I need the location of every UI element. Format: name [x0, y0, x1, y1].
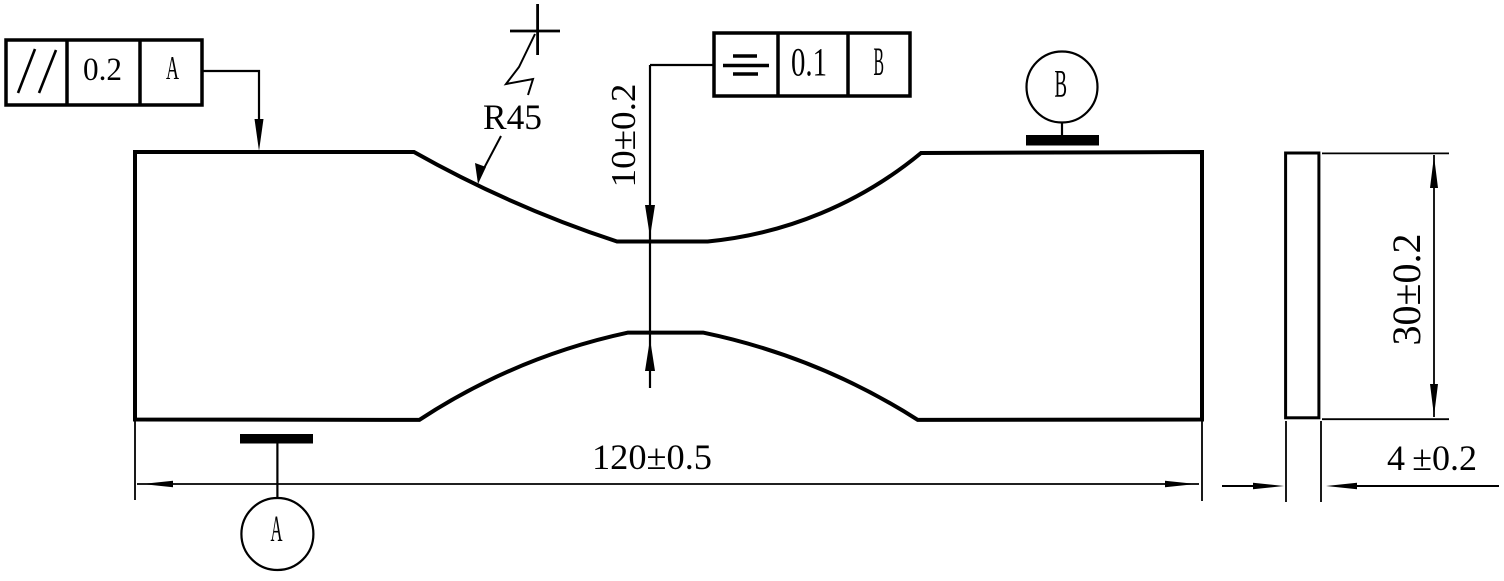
feature control frame FCF1 (parallelism 0.2 A) [6, 40, 202, 105]
svg-text:0.1: 0.1 [791, 40, 827, 85]
dimension 30±0.2 extension line top [1322, 152, 1449, 154]
dimension 120±0.5 extension line left [134, 421, 136, 500]
10-dim arrow bottom (up) [645, 339, 655, 371]
part outline (tensile specimen, front view) [135, 152, 1202, 420]
svg-text:0.2: 0.2 [83, 52, 122, 88]
feature control frame FCF2 (symmetry 0.1 B) [714, 33, 910, 96]
30-dim arrow top (up) [1430, 156, 1438, 188]
svg-text:30±0.2: 30±0.2 [1384, 234, 1429, 346]
FCF1 leader wire [202, 71, 259, 130]
4-dim arrow left (pointing right) [1253, 483, 1284, 490]
datum B symbol circle [1027, 52, 1098, 123]
10-dim arrow top (down) [645, 205, 655, 237]
4-dim lead-in line left [1222, 485, 1253, 487]
FCF1 leader arrowhead [255, 119, 264, 151]
dimension 10±0.2 vertical line [649, 65, 651, 388]
cross / flag symbol top center [506, 4, 560, 95]
svg-text:A: A [271, 509, 283, 550]
datum A target bar [240, 434, 313, 444]
dimension 120±0.5 line [137, 483, 1199, 485]
svg-text:B: B [1055, 63, 1068, 106]
svg-text:120±0.5: 120±0.5 [592, 437, 712, 477]
dimension 120±0.5 extension line right [1201, 421, 1203, 501]
dimension 30±0.2 line [1433, 155, 1435, 417]
svg-text:A: A [166, 50, 179, 87]
symmetry symbol [723, 56, 769, 74]
120-dim arrow left [142, 481, 173, 488]
svg-text:10±0.2: 10±0.2 [604, 84, 643, 188]
30-dim arrow bottom (down) [1430, 384, 1438, 416]
svg-text:B: B [874, 39, 885, 84]
dimension 4±0.2 extension line left [1285, 421, 1287, 502]
4-dim line right [1356, 485, 1499, 487]
FCF2 leader wire [650, 64, 714, 66]
4-dim arrow right (pointing left) [1326, 483, 1357, 490]
datum A stem [276, 443, 278, 498]
side view rectangle [1286, 153, 1319, 418]
parallelism symbol // [18, 49, 56, 93]
datum A symbol circle [241, 498, 313, 570]
svg-text:R45: R45 [483, 97, 542, 137]
R45 leader arrow [482, 136, 501, 172]
datum B stem [1061, 123, 1063, 137]
datum B target bar [1026, 135, 1099, 146]
svg-text:4 ±0.2: 4 ±0.2 [1387, 438, 1477, 478]
dimension 4±0.2 extension line right [1320, 421, 1322, 502]
120-dim arrow right [1165, 481, 1196, 488]
dimension 30±0.2 extension line bottom [1322, 418, 1449, 420]
